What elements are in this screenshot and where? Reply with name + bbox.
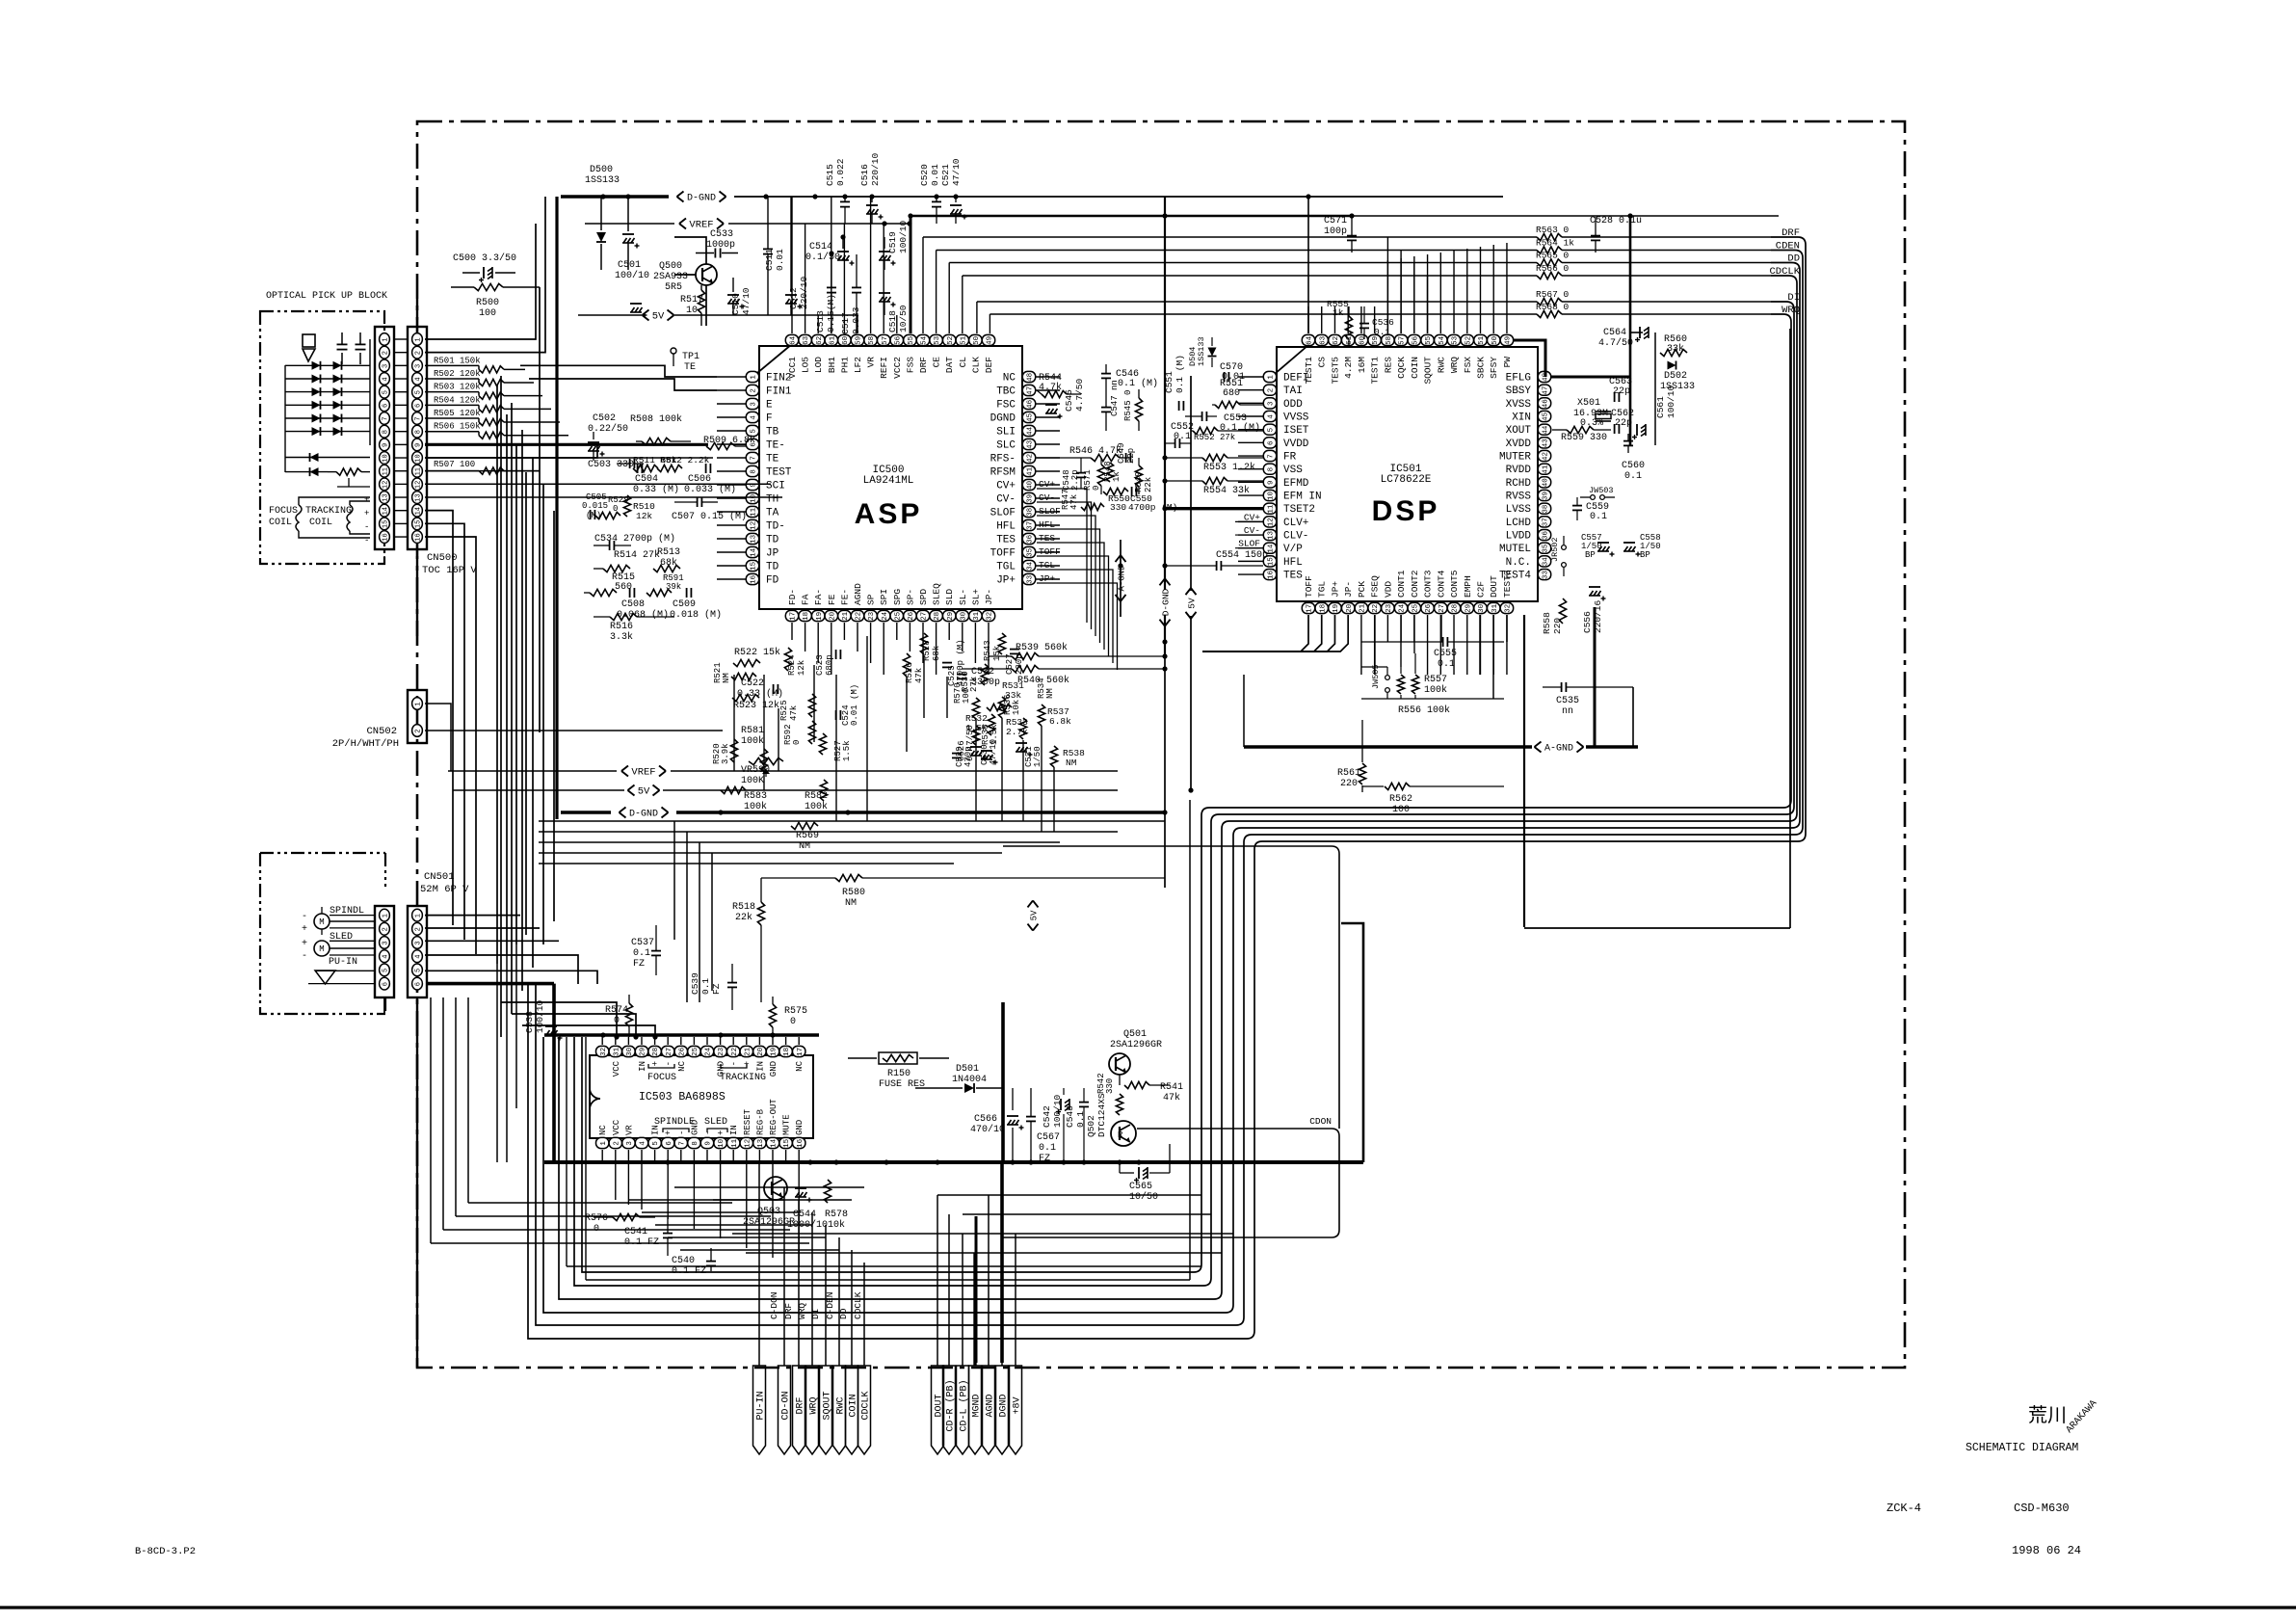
CN500 pin 13 bbox=[412, 492, 423, 504]
wire bbox=[1238, 573, 1263, 575]
svg-text:R513: R513 bbox=[657, 547, 680, 558]
svg-text:CD-ON: CD-ON bbox=[781, 1391, 792, 1420]
wire IC500 pin riser for CDCLK bbox=[962, 276, 963, 333]
svg-text:0.022: 0.022 bbox=[835, 158, 846, 186]
svg-text:13: 13 bbox=[414, 493, 422, 501]
svg-text:11: 11 bbox=[751, 507, 758, 517]
capacitor C502 0.22/50 bbox=[588, 413, 628, 461]
net label DO above flags bbox=[838, 1308, 849, 1319]
svg-text:47k: 47k bbox=[1163, 1092, 1180, 1103]
wire bbox=[772, 1150, 774, 1162]
svg-text:FE-: FE- bbox=[839, 589, 850, 605]
CN501 pin 4 bbox=[412, 950, 423, 963]
svg-text:50: 50 bbox=[973, 335, 981, 345]
svg-text:24: 24 bbox=[882, 611, 889, 621]
IC501 pin 7 bbox=[1263, 450, 1296, 463]
svg-text:680: 680 bbox=[1223, 388, 1240, 399]
svg-text:DTC124XS: DTC124XS bbox=[1096, 1093, 1107, 1137]
svg-text:0: 0 bbox=[1092, 486, 1101, 491]
svg-text:LO5: LO5 bbox=[801, 357, 811, 373]
wire signal loop bbox=[536, 251, 1803, 1326]
svg-text:4.7k: 4.7k bbox=[1039, 382, 1062, 393]
svg-text:0: 0 bbox=[792, 740, 802, 745]
wire bbox=[1238, 455, 1263, 457]
IC501 pin 38 bbox=[1506, 503, 1551, 516]
svg-text:C519: C519 bbox=[887, 231, 898, 253]
svg-text:Q501: Q501 bbox=[1123, 1029, 1147, 1040]
svg-text:3300p: 3300p bbox=[971, 678, 1000, 688]
svg-text:R562: R562 bbox=[1389, 794, 1412, 805]
IC500 pin 40 bbox=[996, 479, 1036, 492]
net label CV- at IC500 pin 39 bbox=[1037, 492, 1062, 503]
wire bbox=[1374, 615, 1376, 675]
IC501 pin 42 bbox=[1499, 450, 1551, 463]
wire bbox=[1333, 306, 1335, 333]
svg-text:RWC: RWC bbox=[1436, 357, 1446, 373]
svg-text:R505 120k: R505 120k bbox=[434, 409, 481, 418]
wire bbox=[1492, 245, 1494, 333]
wire bbox=[1238, 376, 1263, 378]
svg-text:VR: VR bbox=[624, 1125, 634, 1135]
svg-text:23: 23 bbox=[1386, 603, 1393, 613]
wire bbox=[720, 1150, 722, 1162]
svg-text:100/10: 100/10 bbox=[615, 270, 649, 281]
svg-text:SLI: SLI bbox=[996, 427, 1016, 439]
wire bbox=[831, 197, 832, 333]
IC500 pin 38 bbox=[990, 506, 1036, 519]
title text B-8CD-3.P2 bbox=[135, 1546, 196, 1557]
svg-text:1: 1 bbox=[414, 702, 422, 705]
CN500 pin 11 bbox=[412, 465, 423, 477]
IC500 pin 39 bbox=[996, 492, 1036, 505]
label LA9241ML bbox=[863, 475, 914, 487]
svg-text:9: 9 bbox=[705, 1141, 713, 1146]
svg-text:29: 29 bbox=[947, 612, 955, 621]
wire bbox=[831, 623, 832, 675]
svg-text:9: 9 bbox=[1268, 481, 1276, 486]
wire bbox=[798, 1150, 800, 1162]
wire signal loop bbox=[543, 263, 1800, 1314]
wire signal loop bbox=[582, 314, 1791, 1272]
svg-text:ODD: ODD bbox=[1283, 399, 1303, 411]
svg-text:6: 6 bbox=[666, 1141, 673, 1146]
svg-text:+: + bbox=[302, 924, 307, 935]
wire bbox=[680, 1037, 682, 1045]
svg-text:15: 15 bbox=[783, 1138, 791, 1148]
capacitor C-hatch at D500 bbox=[622, 197, 640, 270]
svg-text:31: 31 bbox=[613, 1047, 620, 1056]
svg-text:46: 46 bbox=[1027, 399, 1035, 409]
svg-text:11: 11 bbox=[382, 467, 389, 475]
svg-text:CS: CS bbox=[1317, 357, 1328, 368]
wire bbox=[425, 224, 536, 339]
svg-text:C522: C522 bbox=[741, 678, 764, 689]
svg-text:SPG: SPG bbox=[892, 589, 903, 605]
svg-text:CV+: CV+ bbox=[996, 481, 1016, 492]
svg-text:7: 7 bbox=[382, 416, 389, 420]
capacitor C506 0.033 bbox=[684, 464, 736, 495]
IC503 pin 9 bbox=[700, 1130, 713, 1149]
stamp ARAKAWA rotated bbox=[2065, 1398, 2099, 1436]
svg-text:N.C.: N.C. bbox=[1506, 557, 1531, 569]
wire bbox=[1513, 340, 1545, 377]
capacitor C533 1000p bbox=[696, 229, 738, 258]
wire bbox=[936, 623, 937, 675]
svg-text:5: 5 bbox=[382, 969, 389, 972]
transistor Q500 2SA933 5R5 bbox=[653, 261, 717, 293]
wire bbox=[1238, 520, 1263, 522]
svg-text:M: M bbox=[319, 944, 324, 954]
wire bbox=[746, 1037, 748, 1045]
svg-text:LC78622E: LC78622E bbox=[1381, 474, 1432, 486]
label CN500 TOC 16P V bbox=[422, 552, 477, 576]
CN500 pin 8 bbox=[412, 425, 423, 438]
svg-text:-: - bbox=[364, 522, 369, 532]
svg-text:6: 6 bbox=[414, 982, 422, 986]
svg-text:CONT4: CONT4 bbox=[1436, 570, 1446, 598]
wire bbox=[1202, 615, 1334, 651]
svg-text:1.5k: 1.5k bbox=[842, 740, 852, 761]
terminal flag PU-IN bbox=[753, 1366, 767, 1454]
wire thick rail above IC503 bbox=[544, 1032, 819, 1037]
svg-text:5R5: 5R5 bbox=[665, 282, 682, 293]
terminal flag CDCLK bbox=[858, 1366, 872, 1454]
net label DRF bbox=[1781, 227, 1800, 239]
net label CDON bbox=[1309, 1116, 1332, 1127]
wire bbox=[1654, 332, 1656, 445]
svg-text:0.1 (M): 0.1 (M) bbox=[1174, 355, 1185, 393]
wire bbox=[1238, 402, 1263, 404]
wire bbox=[1427, 254, 1429, 333]
svg-text:32: 32 bbox=[987, 612, 994, 621]
svg-text:C564: C564 bbox=[1603, 328, 1626, 338]
capacitor C530 47/10 bbox=[970, 739, 998, 765]
IC500 pin 46 bbox=[996, 398, 1036, 411]
svg-text:DRF: DRF bbox=[918, 357, 929, 373]
wire motor strip bottom stub bbox=[383, 997, 385, 1014]
IC501 pin 50 bbox=[1488, 334, 1500, 378]
svg-text:JP: JP bbox=[766, 548, 779, 560]
jumper JW503 bbox=[1580, 486, 1615, 499]
wire CDON loop bbox=[1002, 1129, 1339, 1237]
svg-text:2: 2 bbox=[382, 351, 389, 355]
resistor R553 1.2k bbox=[1165, 454, 1263, 473]
svg-text:10: 10 bbox=[1268, 491, 1276, 500]
wire bbox=[566, 1037, 567, 1266]
svg-text:61: 61 bbox=[829, 335, 836, 345]
wire bbox=[1120, 540, 1122, 617]
wire bbox=[1352, 215, 1779, 217]
resistor R575 0 bbox=[769, 997, 807, 1037]
wire bbox=[1466, 249, 1468, 333]
label ASP bbox=[855, 498, 923, 530]
wire bbox=[1053, 767, 1055, 832]
svg-text:27: 27 bbox=[1438, 604, 1446, 613]
resistor R528 68k bbox=[920, 633, 941, 661]
IC500 pin 10 bbox=[746, 492, 779, 505]
wire bbox=[1036, 457, 1060, 459]
resistor R568 bbox=[990, 302, 1771, 318]
wire bbox=[425, 470, 540, 472]
IC503 pin 30 bbox=[622, 1046, 635, 1056]
optical connector pin 14 bbox=[380, 504, 390, 517]
svg-text:VREF: VREF bbox=[631, 767, 655, 779]
wire bbox=[835, 675, 837, 821]
jumper JW505 bbox=[1371, 664, 1389, 699]
svg-text:59: 59 bbox=[1372, 336, 1380, 345]
wire bbox=[539, 831, 1118, 833]
IC501 pin 17 bbox=[1302, 575, 1314, 614]
svg-text:0.01: 0.01 bbox=[775, 249, 785, 271]
wire bbox=[425, 523, 464, 940]
net label CDCLK bbox=[1769, 266, 1800, 278]
CN502 pin 1 bbox=[412, 698, 423, 710]
net label WRQ bbox=[1781, 305, 1800, 316]
svg-text:TB: TB bbox=[766, 427, 779, 439]
monitor resistor (optical blk) bbox=[328, 468, 370, 487]
svg-text:32: 32 bbox=[600, 1048, 608, 1056]
svg-text:A-GND: A-GND bbox=[1118, 565, 1127, 591]
net flag A-GND bbox=[1244, 742, 1638, 755]
wire bbox=[628, 1199, 784, 1201]
wire bbox=[1165, 507, 1263, 510]
svg-text:NC: NC bbox=[1003, 373, 1016, 385]
svg-text:FOCUS: FOCUS bbox=[647, 1073, 676, 1083]
svg-text:4.2M: 4.2M bbox=[1343, 357, 1354, 379]
svg-text:TD: TD bbox=[766, 535, 779, 546]
IC503 pin 32 bbox=[596, 1046, 609, 1056]
resistor R563 bbox=[923, 225, 1771, 241]
svg-text:2SA933: 2SA933 bbox=[653, 272, 688, 282]
net flag 5V vertical bbox=[1186, 588, 1198, 619]
wire bbox=[785, 1150, 787, 1162]
svg-text:4.7/50: 4.7/50 bbox=[1074, 378, 1085, 412]
svg-text:VCC: VCC bbox=[612, 1119, 621, 1135]
IC500 pin 47 bbox=[996, 385, 1036, 397]
svg-text:R500: R500 bbox=[476, 298, 499, 308]
optical block connector strip bbox=[375, 327, 394, 549]
wire bbox=[1400, 615, 1402, 667]
svg-text:DAT: DAT bbox=[944, 357, 955, 373]
wire bbox=[988, 623, 990, 675]
svg-text:47/10: 47/10 bbox=[741, 287, 752, 315]
photodiode pair row 1 bbox=[285, 361, 370, 370]
wire bbox=[1630, 332, 1643, 333]
svg-text:9: 9 bbox=[414, 443, 422, 447]
svg-text:TH: TH bbox=[766, 494, 779, 506]
svg-text:C534 2700p (M): C534 2700p (M) bbox=[594, 533, 675, 545]
svg-text:1SS133: 1SS133 bbox=[585, 175, 620, 186]
svg-text:C565: C565 bbox=[1129, 1182, 1152, 1192]
svg-text:RVSS: RVSS bbox=[1506, 492, 1532, 503]
svg-text:6: 6 bbox=[1268, 440, 1276, 445]
wire bbox=[496, 964, 498, 1162]
svg-text:V/P: V/P bbox=[1283, 544, 1303, 555]
CN501 pin 5 bbox=[412, 964, 423, 976]
svg-text:16: 16 bbox=[382, 533, 389, 541]
IC500 pin 17 bbox=[785, 589, 798, 622]
resistor R504 bbox=[425, 395, 551, 412]
resistor R532 1.5k bbox=[965, 713, 995, 735]
svg-text:NM: NM bbox=[722, 673, 731, 683]
wire bbox=[883, 224, 884, 333]
wire bbox=[1453, 251, 1455, 333]
svg-text:NM: NM bbox=[1066, 758, 1077, 768]
IC501 pin 49 bbox=[1500, 334, 1513, 367]
svg-text:8: 8 bbox=[751, 469, 758, 474]
wire net bend bbox=[1062, 529, 1100, 643]
svg-text:R580: R580 bbox=[842, 888, 865, 898]
IC501 pin 52 bbox=[1461, 334, 1473, 373]
IC500 pin 6 bbox=[746, 439, 785, 451]
IC501 pin 34 bbox=[1506, 556, 1551, 569]
svg-text:1: 1 bbox=[382, 337, 389, 341]
polarity marks optical bbox=[364, 495, 369, 545]
resistor R570 100 bbox=[953, 682, 980, 719]
IC501 pin 5 bbox=[1263, 424, 1309, 437]
wire bbox=[1413, 615, 1415, 642]
svg-text:R546 4.7k: R546 4.7k bbox=[1069, 445, 1122, 457]
svg-text:X501: X501 bbox=[1577, 398, 1600, 409]
IC501 pin 56 bbox=[1408, 334, 1420, 378]
svg-text:C560: C560 bbox=[1622, 461, 1645, 471]
wire bbox=[425, 915, 520, 917]
capacitor C505 0.015 bbox=[582, 492, 608, 520]
svg-text:48: 48 bbox=[1027, 373, 1035, 382]
IC501 pin 33 bbox=[1499, 569, 1551, 581]
svg-text:LOD: LOD bbox=[813, 357, 824, 373]
svg-text:13: 13 bbox=[751, 534, 758, 544]
resistor R529 0 bbox=[595, 495, 629, 519]
svg-text:57: 57 bbox=[882, 336, 889, 345]
svg-text:C515: C515 bbox=[825, 164, 835, 186]
motor connector pin 6 bbox=[380, 977, 390, 990]
optical connector pin 13 bbox=[380, 492, 390, 504]
IC500 pin 44 bbox=[996, 425, 1036, 438]
wire bbox=[732, 1150, 734, 1162]
IC500 pin 61 bbox=[825, 334, 837, 373]
wire bbox=[641, 1037, 643, 1045]
net flag D-GND vertical bbox=[1160, 578, 1172, 625]
svg-text:R567 0: R567 0 bbox=[1536, 289, 1570, 300]
net label CV+ at IC501 bbox=[1235, 512, 1260, 522]
svg-text:C540: C540 bbox=[672, 1256, 695, 1266]
wire bbox=[974, 623, 976, 663]
svg-text:SQOUT: SQOUT bbox=[1423, 357, 1434, 385]
svg-text:30: 30 bbox=[960, 611, 967, 621]
svg-text:2: 2 bbox=[751, 388, 758, 393]
CN501 pin 6 bbox=[412, 977, 423, 990]
net label DI above flags bbox=[810, 1309, 821, 1319]
wire signal loop bbox=[574, 302, 1794, 1286]
resistor R583 100k bbox=[721, 786, 767, 812]
resistor R559 330 bbox=[1552, 426, 1611, 443]
svg-text:37: 37 bbox=[1543, 518, 1550, 526]
photodiode pair row 5 bbox=[285, 414, 370, 423]
motor block connector strip bbox=[375, 906, 394, 997]
net label SLOF at IC500 pin 38 bbox=[1037, 506, 1062, 517]
IC503 pin 6 bbox=[662, 1130, 674, 1149]
IC501 pin 44 bbox=[1506, 424, 1551, 437]
svg-text:R503 120k: R503 120k bbox=[434, 383, 481, 392]
svg-text:19: 19 bbox=[816, 612, 824, 621]
svg-text:46: 46 bbox=[1543, 399, 1550, 409]
svg-text:21: 21 bbox=[842, 611, 850, 621]
svg-text:100k: 100k bbox=[1424, 684, 1447, 696]
CN500 pin 7 bbox=[412, 412, 423, 425]
IC500 pin 15 bbox=[746, 560, 779, 572]
svg-text:FSX: FSX bbox=[1463, 357, 1473, 373]
svg-text:NM: NM bbox=[845, 898, 857, 909]
svg-text:13: 13 bbox=[382, 493, 389, 501]
svg-text:0.1: 0.1 bbox=[1624, 471, 1642, 482]
wire bbox=[1036, 551, 1060, 553]
IC501 pin 59 bbox=[1368, 334, 1381, 384]
svg-text:43: 43 bbox=[1027, 439, 1035, 449]
IC501 pin 29 bbox=[1461, 575, 1473, 613]
resistor R501 bbox=[425, 356, 525, 373]
svg-text:5V: 5V bbox=[1030, 910, 1040, 920]
wire bbox=[699, 842, 700, 1002]
net flag A-GND vertical bbox=[1116, 555, 1127, 601]
wire IC500 pin riser for DI bbox=[976, 302, 978, 333]
capacitor C528 0.1u bbox=[1590, 216, 1642, 253]
IC500 pin 52 bbox=[943, 334, 956, 373]
svg-text:5V: 5V bbox=[652, 311, 665, 323]
svg-text:R559 330: R559 330 bbox=[1561, 433, 1607, 443]
svg-text:+: + bbox=[717, 1130, 726, 1135]
label TRACKING COIL bbox=[305, 506, 352, 528]
svg-text:C504: C504 bbox=[635, 474, 658, 485]
svg-text:TES: TES bbox=[996, 535, 1016, 546]
svg-text:33: 33 bbox=[1027, 574, 1035, 584]
svg-text:C502: C502 bbox=[593, 413, 616, 424]
wire bbox=[817, 315, 819, 333]
terminal flag DGND bbox=[996, 1366, 1010, 1454]
svg-text:24: 24 bbox=[705, 1047, 713, 1056]
svg-text:C523: C523 bbox=[815, 654, 825, 676]
svg-text:25: 25 bbox=[692, 1047, 699, 1056]
svg-text:LCHD: LCHD bbox=[1506, 518, 1532, 529]
optical connector pin 16 bbox=[380, 531, 390, 544]
resistor R513 68k bbox=[653, 547, 680, 572]
capacitor C529 470p bbox=[952, 746, 973, 767]
svg-text:36: 36 bbox=[1027, 534, 1035, 544]
svg-text:COIN: COIN bbox=[1410, 357, 1420, 379]
svg-text:RES: RES bbox=[1383, 357, 1393, 373]
connector CN500 body bbox=[408, 327, 427, 549]
wire bbox=[425, 443, 708, 446]
resistor R544 4.7k bbox=[1037, 373, 1081, 398]
svg-text:10: 10 bbox=[751, 493, 758, 503]
wire bbox=[1238, 508, 1263, 510]
svg-text:C571: C571 bbox=[1324, 216, 1347, 226]
IC500 pin 45 bbox=[990, 412, 1036, 424]
svg-text:R512 2.2k: R512 2.2k bbox=[660, 455, 710, 465]
label IC501 bbox=[1389, 464, 1421, 475]
svg-text:TD-: TD- bbox=[766, 521, 785, 533]
svg-text:IN: IN bbox=[638, 1061, 647, 1072]
IC500 pin 34 bbox=[996, 560, 1036, 572]
wire bbox=[1360, 306, 1362, 333]
CN501 pin 3 bbox=[412, 937, 423, 949]
terminal flag DRF bbox=[793, 1366, 806, 1454]
capacitor C507 0.15 bbox=[672, 497, 747, 522]
wire bbox=[975, 1216, 978, 1363]
svg-text:MUTE: MUTE bbox=[782, 1114, 792, 1135]
capacitor C523 680p bbox=[815, 650, 840, 676]
svg-text:22p: 22p bbox=[1126, 448, 1136, 464]
